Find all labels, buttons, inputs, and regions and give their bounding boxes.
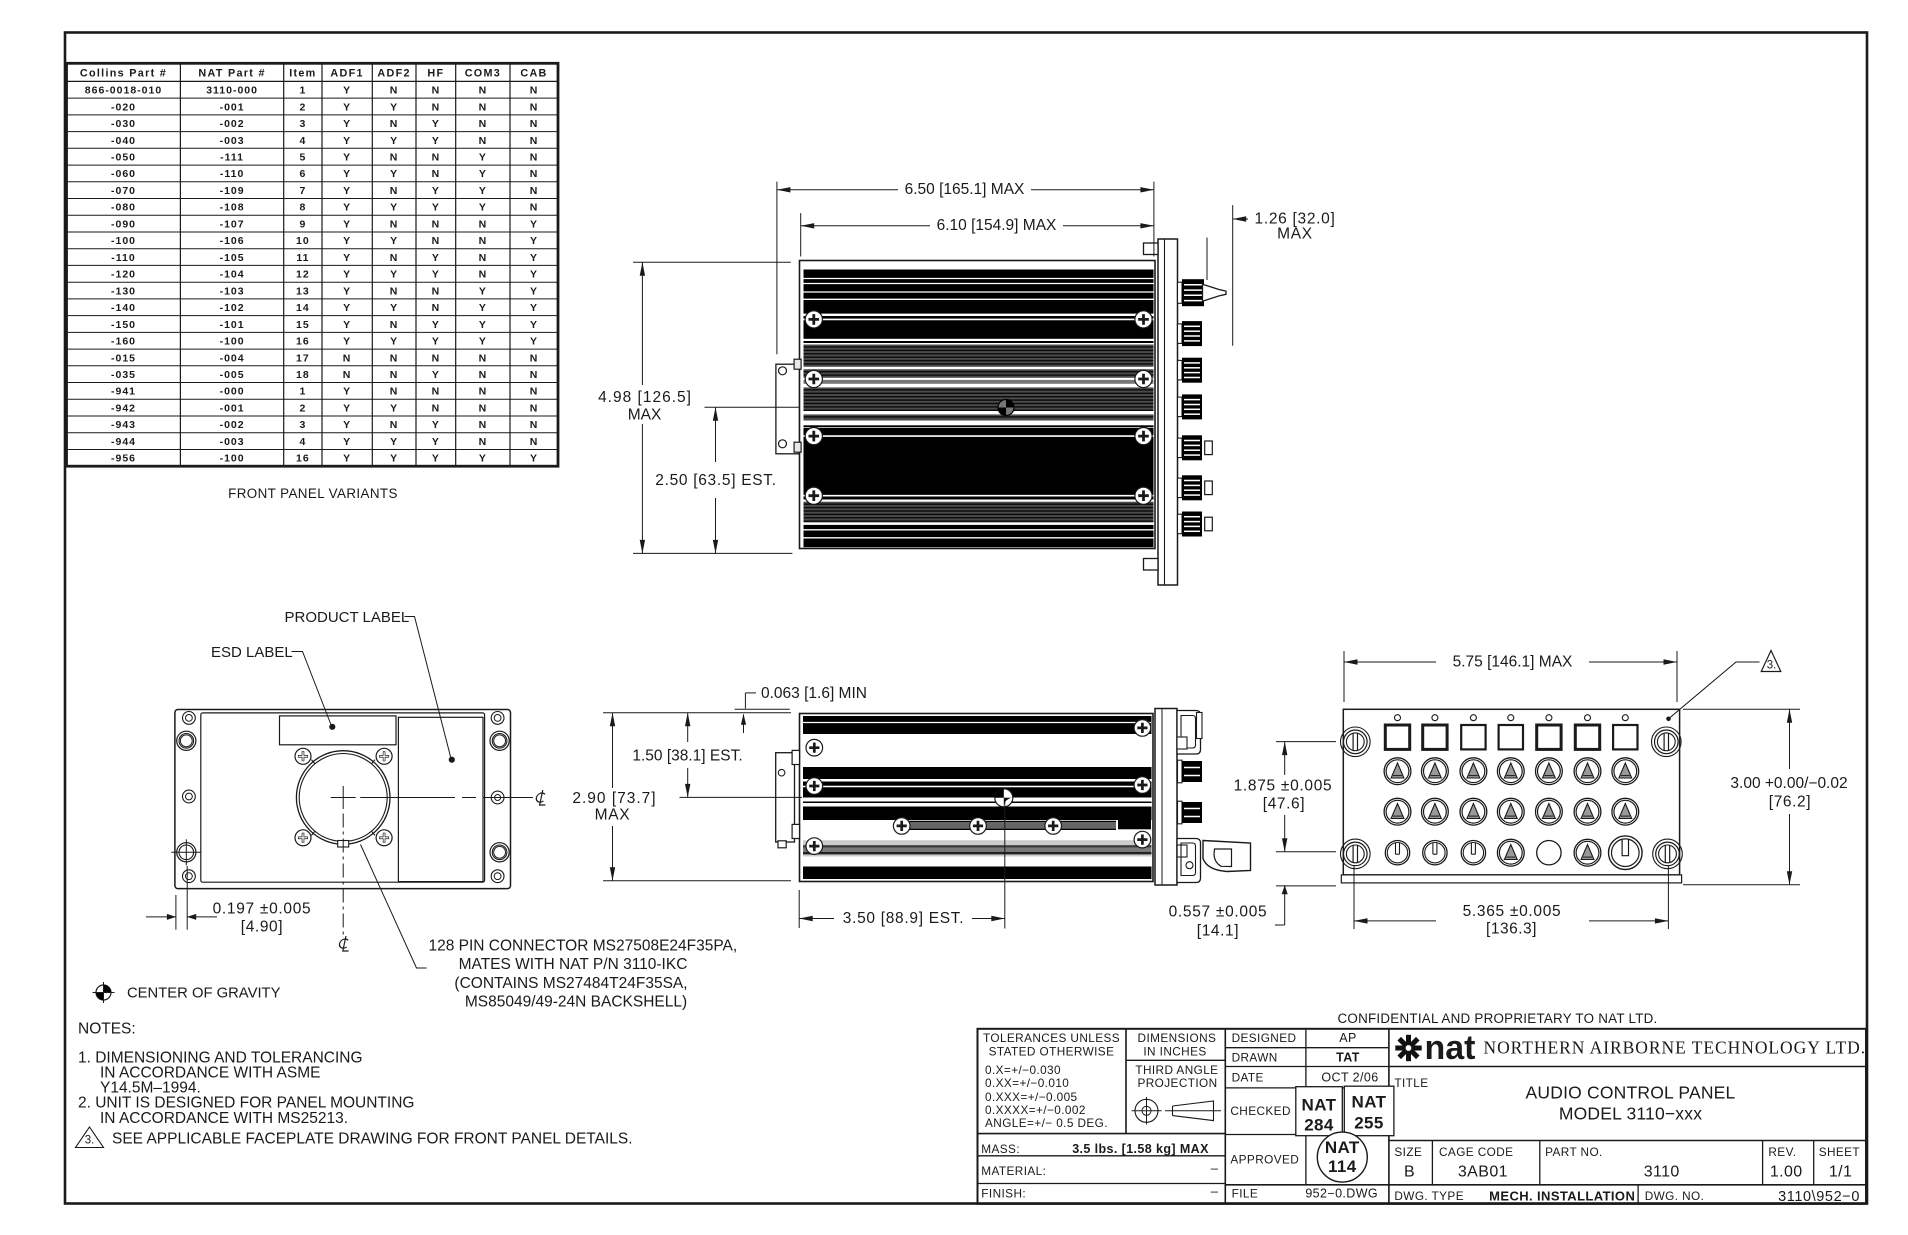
svg-text:Y: Y (343, 202, 351, 214)
svg-text:Y: Y (343, 402, 351, 414)
svg-text:FRONT PANEL VARIANTS: FRONT PANEL VARIANTS (228, 486, 398, 501)
svg-text:N: N (432, 101, 441, 113)
dim 1.875 +/-0.005 [47.6] (1276, 741, 1336, 743)
svg-text:N: N (479, 436, 488, 448)
svg-text:-130: -130 (111, 285, 136, 297)
svg-text:-090: -090 (111, 218, 136, 230)
svg-text:N: N (390, 252, 399, 264)
svg-text:Y: Y (390, 453, 398, 465)
svg-text:Y: Y (432, 118, 440, 130)
svg-text:3: 3 (299, 118, 306, 130)
svg-text:Y: Y (390, 202, 398, 214)
svg-text:DRAWN: DRAWN (1232, 1050, 1278, 1064)
product label rectangle (398, 717, 483, 881)
rear view: chassis back (175, 710, 511, 889)
svg-text:Y: Y (343, 135, 351, 147)
svg-text:N: N (390, 369, 399, 381)
svg-text:AUDIO CONTROL PANEL: AUDIO CONTROL PANEL (1526, 1083, 1736, 1103)
svg-text:6.10 [154.9] MAX: 6.10 [154.9] MAX (937, 217, 1057, 234)
svg-text:2.50 [63.5] EST.: 2.50 [63.5] EST. (655, 472, 777, 489)
svg-text:255: 255 (1354, 1114, 1384, 1133)
svg-text:-106: -106 (220, 235, 245, 247)
svg-text:MS85049/49-24N BACKSHELL): MS85049/49-24N BACKSHELL) (465, 994, 687, 1011)
svg-text:Y: Y (343, 436, 351, 448)
svg-text:Y: Y (432, 436, 440, 448)
svg-text:CHECKED: CHECKED (1230, 1104, 1290, 1118)
svg-text:128 PIN CONNECTOR MS27508E24F3: 128 PIN CONNECTOR MS27508E24F35PA, (429, 938, 738, 955)
rear view right fastener column (491, 712, 504, 725)
svg-text:-108: -108 (220, 202, 245, 214)
svg-text:16: 16 (296, 453, 310, 465)
svg-text:Y: Y (530, 453, 538, 465)
svg-text:0.XX=+/−0.010: 0.XX=+/−0.010 (985, 1076, 1069, 1090)
svg-text:Item: Item (289, 68, 316, 80)
svg-text:Y: Y (432, 336, 440, 348)
svg-text:IN INCHES: IN INCHES (1143, 1045, 1206, 1059)
svg-text:Y: Y (432, 135, 440, 147)
svg-text:-003: -003 (220, 135, 245, 147)
top view center of gravity symbol (998, 400, 1014, 416)
svg-text:Y: Y (343, 101, 351, 113)
svg-text:-003: -003 (220, 436, 245, 448)
dwg row divider (1637, 1185, 1639, 1204)
top view mounting screws (804, 318, 1154, 320)
svg-text:-035: -035 (111, 369, 136, 381)
svg-text:ESD LABEL: ESD LABEL (211, 644, 293, 661)
svg-text:CENTER OF GRAVITY: CENTER OF GRAVITY (127, 986, 281, 1002)
horizontal centerline (360, 797, 455, 799)
svg-text:-104: -104 (220, 269, 245, 281)
svg-text:N: N (432, 235, 441, 247)
svg-text:Y: Y (343, 85, 351, 97)
side view: unit body (800, 714, 1154, 882)
svg-text:Collins Part #: Collins Part # (80, 68, 167, 80)
side view toggle lever (1203, 841, 1251, 872)
svg-text:-941: -941 (111, 386, 136, 398)
svg-text:N: N (390, 85, 399, 97)
svg-text:N: N (530, 352, 539, 364)
svg-text:N: N (530, 118, 539, 130)
svg-text:3.: 3. (85, 1135, 95, 1147)
svg-text:N: N (390, 319, 399, 331)
svg-text:DIMENSIONS: DIMENSIONS (1138, 1031, 1217, 1045)
svg-text:866-0018-010: 866-0018-010 (85, 85, 162, 97)
svg-text:Y: Y (343, 285, 351, 297)
svg-text:MATERIAL:: MATERIAL: (981, 1164, 1046, 1178)
rear view left fastener column (183, 712, 196, 725)
svg-text:-000: -000 (220, 386, 245, 398)
svg-text:-110: -110 (220, 168, 244, 180)
svg-text:DESIGNED: DESIGNED (1232, 1031, 1297, 1045)
dim 6.10 [154.9] MAX (800, 213, 802, 256)
svg-text:N: N (530, 402, 539, 414)
svg-text:Y: Y (390, 302, 398, 314)
svg-text:N: N (432, 386, 441, 398)
svg-text:Y: Y (343, 168, 351, 180)
svg-text:6.50 [165.1] MAX: 6.50 [165.1] MAX (905, 181, 1025, 198)
front panel square buttons row (1395, 715, 1401, 721)
svg-text:APPROVED: APPROVED (1230, 1153, 1299, 1167)
side view top-right corner bracket (1177, 711, 1201, 755)
svg-text:6: 6 (299, 168, 306, 180)
svg-text:-110: -110 (111, 252, 135, 264)
svg-text:N: N (390, 185, 399, 197)
svg-text:N: N (479, 218, 488, 230)
svg-text:CAGE CODE: CAGE CODE (1439, 1145, 1513, 1159)
NAT logo (1395, 1035, 1421, 1061)
svg-text:MODEL 3110−xxx: MODEL 3110−xxx (1559, 1103, 1702, 1123)
svg-text:284: 284 (1304, 1116, 1334, 1135)
vertical centerline below connector (342, 814, 344, 936)
svg-text:N: N (390, 386, 399, 398)
svg-text:N: N (530, 135, 539, 147)
svg-text:-943: -943 (111, 419, 136, 431)
svg-text:nat: nat (1425, 1029, 1476, 1067)
svg-text:Y: Y (343, 118, 351, 130)
svg-text:9: 9 (299, 218, 306, 230)
svg-text:-100: -100 (220, 453, 245, 465)
svg-text:OCT 2/06: OCT 2/06 (1321, 1071, 1378, 1085)
svg-text:Y: Y (432, 185, 440, 197)
svg-text:N: N (530, 202, 539, 214)
svg-text:N: N (390, 352, 399, 364)
svg-text:-109: -109 (220, 185, 245, 197)
svg-text:1: 1 (299, 85, 306, 97)
front panel bottom lip (1341, 875, 1681, 883)
svg-text:ANGLE=+/− 0.5 DEG.: ANGLE=+/− 0.5 DEG. (985, 1116, 1108, 1130)
svg-text:Y: Y (432, 369, 440, 381)
rear view inner frame (201, 713, 485, 882)
svg-text:MAX: MAX (1277, 226, 1313, 243)
svg-text:TITLE: TITLE (1394, 1076, 1428, 1090)
svg-text:FILE: FILE (1232, 1187, 1259, 1201)
svg-text:Y: Y (530, 218, 538, 230)
svg-text:N: N (530, 436, 539, 448)
svg-text:REV.: REV. (1768, 1145, 1796, 1159)
side view center of gravity symbol (995, 789, 1013, 807)
svg-text:8: 8 (299, 202, 306, 214)
svg-text:114: 114 (1328, 1157, 1357, 1176)
svg-text:N: N (432, 168, 441, 180)
svg-text:952−0.DWG: 952−0.DWG (1305, 1187, 1378, 1201)
svg-text:N: N (479, 386, 488, 398)
svg-text:Y: Y (479, 285, 487, 297)
svg-text:3.5 lbs. [1.58 kg] MAX: 3.5 lbs. [1.58 kg] MAX (1072, 1142, 1209, 1156)
svg-text:11: 11 (296, 252, 309, 264)
dim 2.90 [73.7] MAX (612, 713, 614, 788)
svg-text:ADF2: ADF2 (377, 68, 410, 80)
svg-text:-105: -105 (220, 252, 245, 264)
svg-text:HF: HF (427, 68, 444, 80)
svg-text:-001: -001 (220, 101, 245, 113)
svg-text:Y: Y (479, 202, 487, 214)
dim 3.00 +0.00/-0.02 [76.2] (1683, 708, 1800, 710)
svg-text:N: N (390, 118, 399, 130)
svg-text:2.90 [73.7]: 2.90 [73.7] (572, 790, 656, 807)
svg-text:Y: Y (343, 252, 351, 264)
front panel knob row 3 (1384, 798, 1411, 825)
svg-text:15: 15 (296, 319, 310, 331)
svg-text:2. UNIT IS DESIGNED FOR PANEL: 2. UNIT IS DESIGNED FOR PANEL MOUNTING (78, 1095, 414, 1112)
svg-text:N: N (432, 302, 441, 314)
svg-text:-002: -002 (220, 118, 245, 130)
dim 0.063 [1.6] MIN (603, 712, 791, 714)
svg-text:Y: Y (343, 453, 351, 465)
connector mounting screws (295, 748, 311, 764)
svg-text:–: – (1211, 1184, 1219, 1199)
svg-text:Y: Y (343, 235, 351, 247)
dim 1.26 [32.0] MAX (1232, 205, 1234, 346)
svg-text:0.197 ±0.005: 0.197 ±0.005 (213, 901, 312, 918)
svg-text:Y: Y (530, 302, 538, 314)
svg-text:-120: -120 (111, 269, 136, 281)
svg-text:(CONTAINS MS27484T24F35SA,: (CONTAINS MS27484T24F35SA, (454, 975, 687, 992)
checked stamp NAT 284 (1296, 1087, 1343, 1136)
svg-text:NOTES:: NOTES: (78, 1021, 136, 1038)
svg-text:12: 12 (296, 269, 310, 281)
svg-text:MAX: MAX (628, 407, 662, 424)
svg-text:-100: -100 (220, 336, 245, 348)
front panel variants table (67, 63, 559, 466)
svg-text:-100: -100 (111, 235, 136, 247)
svg-text:Y: Y (343, 336, 351, 348)
svg-text:Y: Y (432, 419, 440, 431)
svg-text:N: N (479, 269, 488, 281)
svg-text:18: 18 (296, 369, 310, 381)
svg-text:COM3: COM3 (465, 68, 501, 80)
svg-text:Y: Y (390, 436, 398, 448)
svg-text:Y: Y (530, 285, 538, 297)
svg-text:7: 7 (299, 185, 306, 197)
svg-text:N: N (479, 402, 488, 414)
svg-text:3.: 3. (1767, 660, 1777, 672)
svg-text:-944: -944 (111, 436, 136, 448)
side view middle gray rail (1118, 807, 1151, 830)
svg-text:-002: -002 (220, 419, 245, 431)
svg-text:1.875 ±0.005: 1.875 ±0.005 (1234, 778, 1333, 795)
svg-text:SEE APPLICABLE FACEPLATE DRAWI: SEE APPLICABLE FACEPLATE DRAWING FOR FRO… (112, 1131, 633, 1148)
svg-text:-004: -004 (220, 352, 245, 364)
svg-text:-040: -040 (111, 135, 136, 147)
svg-text:0.XXXX=+/−0.002: 0.XXXX=+/−0.002 (985, 1103, 1086, 1117)
side view lower gray rail (803, 840, 1152, 856)
svg-text:[47.6]: [47.6] (1263, 796, 1305, 813)
svg-text:Y: Y (343, 386, 351, 398)
svg-text:3.50 [88.9] EST.: 3.50 [88.9] EST. (843, 910, 965, 927)
svg-text:PART NO.: PART NO. (1545, 1145, 1603, 1159)
svg-text:3.00 +0.00/−0.02: 3.00 +0.00/−0.02 (1730, 775, 1847, 792)
svg-text:N: N (530, 152, 539, 164)
128 pin connector callout leader (361, 845, 427, 969)
svg-text:13: 13 (296, 285, 310, 297)
svg-text:0.063 [1.6] MIN: 0.063 [1.6] MIN (761, 685, 867, 702)
svg-text:NORTHERN AIRBORNE TECHNOLOGY L: NORTHERN AIRBORNE TECHNOLOGY LTD. (1484, 1038, 1867, 1058)
center of gravity legend symbol (96, 985, 111, 1000)
svg-text:Y: Y (432, 319, 440, 331)
svg-text:NAT Part #: NAT Part # (198, 68, 265, 80)
front panel knob row 2 (1384, 758, 1411, 785)
svg-text:N: N (530, 369, 539, 381)
svg-text:N: N (479, 85, 488, 97)
svg-text:-050: -050 (111, 152, 136, 164)
title block vertical dividers (1125, 1029, 1127, 1134)
svg-text:N: N (530, 386, 539, 398)
svg-text:Y: Y (479, 319, 487, 331)
svg-text:Y: Y (530, 235, 538, 247)
svg-text:[14.1]: [14.1] (1197, 923, 1239, 940)
svg-text:Y: Y (479, 152, 487, 164)
side view screws (806, 739, 823, 756)
svg-text:N: N (479, 352, 488, 364)
svg-text:17: 17 (296, 352, 310, 364)
svg-text:-102: -102 (220, 302, 245, 314)
approved stamp NAT 114 (1317, 1132, 1367, 1182)
svg-text:N: N (390, 285, 399, 297)
note 3 flag triangle (76, 1127, 104, 1148)
svg-text:Y: Y (390, 336, 398, 348)
svg-text:NAT: NAT (1352, 1093, 1387, 1112)
svg-text:Y: Y (479, 168, 487, 180)
dim 4.98 [126.5] MAX (633, 261, 791, 263)
svg-text:-030: -030 (111, 118, 136, 130)
svg-text:-107: -107 (220, 218, 245, 230)
svg-text:N: N (530, 85, 539, 97)
svg-text:Y: Y (343, 185, 351, 197)
svg-text:0.X=+/−0.030: 0.X=+/−0.030 (985, 1063, 1061, 1077)
svg-text:-060: -060 (111, 168, 136, 180)
svg-text:N: N (530, 185, 539, 197)
dim 3.50 [88.9] EST. (798, 890, 800, 928)
svg-text:MATES WITH NAT P/N 3110-IKC: MATES WITH NAT P/N 3110-IKC (459, 956, 688, 973)
dim 5.365 +/-0.005 [136.3] (1353, 865, 1355, 929)
svg-text:Y: Y (432, 269, 440, 281)
svg-text:5.365 ±0.005: 5.365 ±0.005 (1463, 903, 1562, 920)
svg-text:N: N (479, 419, 488, 431)
svg-text:CAB: CAB (520, 68, 547, 80)
svg-text:Y: Y (343, 269, 351, 281)
third angle projection symbol (1135, 1099, 1158, 1122)
svg-text:1.50 [38.1] EST.: 1.50 [38.1] EST. (632, 748, 742, 765)
svg-text:-005: -005 (220, 369, 245, 381)
svg-text:N: N (479, 369, 488, 381)
svg-text:MAX: MAX (595, 807, 631, 824)
svg-text:5: 5 (299, 152, 306, 164)
svg-text:-015: -015 (111, 352, 136, 364)
connector center crosshair (331, 797, 356, 799)
svg-text:NAT: NAT (1325, 1138, 1360, 1157)
ESD label rectangle (280, 716, 397, 745)
size row dividers (1431, 1141, 1433, 1185)
svg-text:Y: Y (479, 336, 487, 348)
svg-text:N: N (479, 118, 488, 130)
svg-text:N: N (343, 369, 352, 381)
checked stamp NAT 255 (1344, 1086, 1394, 1136)
svg-text:DWG. NO.: DWG. NO. (1645, 1189, 1705, 1203)
svg-text:Y: Y (432, 453, 440, 465)
svg-text:Y: Y (390, 269, 398, 281)
svg-text:-080: -080 (111, 202, 136, 214)
svg-text:N: N (432, 85, 441, 97)
svg-text:N: N (530, 168, 539, 180)
svg-text:0.XXX=+/−0.005: 0.XXX=+/−0.005 (985, 1090, 1078, 1104)
svg-text:NAT: NAT (1302, 1096, 1337, 1115)
svg-text:5.75 [146.1] MAX: 5.75 [146.1] MAX (1453, 654, 1573, 671)
svg-text:N: N (530, 419, 539, 431)
svg-text:N: N (479, 252, 488, 264)
svg-text:[136.3]: [136.3] (1486, 921, 1537, 938)
svg-text:-101: -101 (220, 319, 245, 331)
dim 1.50 [38.1] EST. (687, 713, 689, 742)
svg-text:Y: Y (479, 302, 487, 314)
svg-text:ADF1: ADF1 (330, 68, 363, 80)
svg-text:CONFIDENTIAL AND PROPRIETARY T: CONFIDENTIAL AND PROPRIETARY TO NAT LTD. (1337, 1011, 1657, 1026)
svg-text:SHEET: SHEET (1819, 1145, 1860, 1159)
svg-text:3110\952−0: 3110\952−0 (1778, 1189, 1860, 1205)
svg-text:-160: -160 (111, 336, 136, 348)
svg-text:DWG. TYPE: DWG. TYPE (1394, 1189, 1464, 1203)
svg-text:DATE: DATE (1232, 1071, 1264, 1085)
svg-text:N: N (432, 218, 441, 230)
svg-text:[76.2]: [76.2] (1769, 794, 1811, 811)
svg-text:-111: -111 (220, 152, 244, 164)
svg-text:N: N (390, 152, 399, 164)
svg-text:3: 3 (299, 419, 306, 431)
flag note 3 triangle with leader (1761, 651, 1781, 672)
svg-text:THIRD ANGLE: THIRD ANGLE (1135, 1063, 1218, 1077)
svg-text:AP: AP (1339, 1031, 1356, 1045)
svg-text:N: N (343, 352, 352, 364)
svg-text:0.557 ±0.005: 0.557 ±0.005 (1169, 904, 1268, 921)
svg-text:1: 1 (299, 386, 306, 398)
svg-text:STATED OTHERWISE: STATED OTHERWISE (989, 1045, 1115, 1059)
svg-text:Y: Y (390, 101, 398, 113)
svg-text:Y: Y (390, 402, 398, 414)
svg-text:TAT: TAT (1336, 1050, 1360, 1064)
svg-text:N: N (432, 285, 441, 297)
svg-text:N: N (479, 235, 488, 247)
svg-text:[4.90]: [4.90] (241, 919, 283, 936)
svg-text:-150: -150 (111, 319, 136, 331)
svg-text:Y: Y (343, 319, 351, 331)
svg-text:-070: -070 (111, 185, 136, 197)
title block outer frame (978, 1029, 1867, 1204)
svg-text:Y: Y (479, 185, 487, 197)
svg-text:N: N (432, 352, 441, 364)
svg-text:Y: Y (432, 202, 440, 214)
svg-text:N: N (390, 419, 399, 431)
svg-text:IN ACCORDANCE WITH MS25213.: IN ACCORDANCE WITH MS25213. (100, 1110, 348, 1127)
svg-text:Y: Y (530, 336, 538, 348)
svg-text:Y: Y (432, 252, 440, 264)
svg-text:-942: -942 (111, 402, 136, 414)
svg-text:TOLERANCES UNLESS: TOLERANCES UNLESS (983, 1031, 1120, 1045)
svg-text:N: N (432, 402, 441, 414)
svg-text:-140: -140 (111, 302, 136, 314)
svg-text:SIZE: SIZE (1394, 1145, 1422, 1159)
svg-text:–: – (1211, 1161, 1219, 1176)
dim 2.50 [63.5] EST. (705, 406, 801, 408)
top view knobs (profile) (1178, 282, 1183, 303)
svg-text:MASS:: MASS: (981, 1142, 1020, 1156)
svg-text:Y: Y (530, 319, 538, 331)
dim 6.50 [165.1] MAX (776, 182, 778, 355)
svg-text:-956: -956 (111, 453, 136, 465)
svg-text:MECH. INSTALLATION: MECH. INSTALLATION (1489, 1189, 1635, 1204)
svg-text:Y: Y (530, 252, 538, 264)
svg-text:4.98 [126.5]: 4.98 [126.5] (598, 389, 692, 406)
svg-text:Y: Y (343, 302, 351, 314)
svg-text:2: 2 (299, 402, 306, 414)
